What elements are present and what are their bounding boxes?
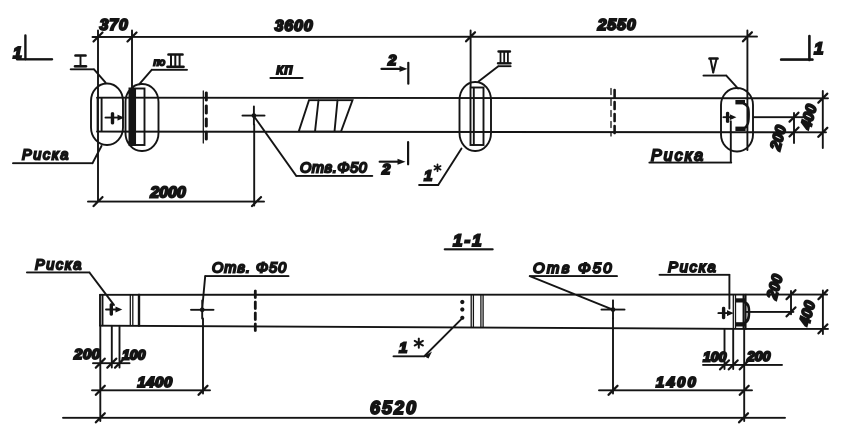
console stadium left 2 [126, 84, 159, 151]
200 dim mid line [747, 311, 794, 313]
beam bottom edge [97, 131, 826, 134]
svg-text:200: 200 [763, 272, 786, 302]
hole cross bottom-right [602, 309, 625, 311]
svg-text:2550: 2550 [597, 17, 637, 34]
extension x=470.5 [470, 31, 472, 88]
svg-text:Риска: Риска [22, 148, 70, 164]
svg-text:200: 200 [746, 348, 771, 364]
small dim line right [703, 364, 782, 366]
mark I [75, 56, 86, 67]
dashed joint bottom view [254, 291, 257, 333]
bottom edge extension [746, 328, 828, 330]
1400 dim right [599, 389, 752, 391]
joint dashed lines at x~204 [202, 91, 204, 143]
section mark 1 top-right [808, 36, 811, 60]
svg-text:400: 400 [797, 102, 820, 132]
right side: 200 dim line mid [754, 116, 804, 118]
joint lines at 370 [129, 295, 131, 326]
trapezoid mark (kp) [299, 100, 353, 131]
console stadium middle [460, 82, 492, 151]
6520 dim [63, 417, 785, 419]
svg-text:1400: 1400 [137, 374, 173, 391]
three dots [460, 300, 464, 304]
svg-text:1: 1 [814, 39, 823, 58]
400 vertical [822, 291, 824, 335]
svg-text:Риска: Риска [668, 259, 717, 276]
riska mark left (tick) [111, 114, 114, 123]
lifting loop bottom view: arc [745, 302, 749, 322]
ext lines left small dims [99, 326, 101, 421]
svg-text:1-1: 1-1 [453, 231, 484, 250]
tick 98 [94, 33, 103, 42]
tick 470 [466, 32, 475, 41]
svg-text:по: по [154, 57, 166, 69]
svg-text:100: 100 [703, 349, 727, 365]
riska mark bottom-left [110, 305, 113, 314]
joint double lines bottom view [470, 295, 472, 328]
svg-text:6520: 6520 [370, 398, 418, 418]
console stadium right [721, 88, 753, 152]
lifting loop bottom bar [735, 127, 745, 131]
mark III middle [498, 52, 511, 64]
tick 132 [128, 33, 137, 42]
tick 747 [743, 32, 752, 41]
svg-text:370: 370 [99, 17, 128, 34]
2000 dim line [88, 201, 264, 203]
plate in stadium 2 [130, 89, 145, 146]
extension x=132 [131, 31, 133, 91]
svg-text:2: 2 [381, 161, 391, 178]
svg-text:3600: 3600 [275, 18, 314, 35]
plate middle [471, 88, 484, 146]
beam left end face [97, 98, 99, 132]
bar left end face [99, 295, 101, 326]
bar right end face [743, 295, 745, 329]
lifting loop top bar [735, 100, 745, 104]
200 vertical [790, 291, 792, 314]
riska mark bottom-right [722, 309, 725, 318]
svg-text:Отв Φ50: Отв Φ50 [533, 260, 614, 277]
svg-text:кп: кп [276, 61, 293, 78]
svg-text:1: 1 [13, 45, 22, 62]
lifting loop arc [744, 104, 749, 128]
hole cross top view [243, 115, 265, 117]
top dim line [93, 36, 758, 38]
svg-text:1: 1 [424, 168, 432, 185]
riska arrow left [106, 117, 120, 119]
svg-text:2000: 2000 [149, 185, 186, 202]
hole extension down to 2000 dim [253, 125, 255, 206]
200 vertical [793, 113, 795, 143]
console stadium left 1 [91, 84, 123, 146]
small dim line left [93, 362, 130, 364]
svg-text:Риска: Риска [35, 258, 83, 274]
svg-text:200: 200 [73, 346, 101, 363]
joint dashed lines at x~612 [610, 89, 612, 137]
hole cross bottom-left [191, 309, 214, 311]
svg-text:2: 2 [387, 52, 397, 69]
svg-text:1: 1 [399, 340, 407, 357]
extension hole to 1400 dim right [612, 318, 614, 393]
leader riska bottom-right vertical [728, 275, 730, 309]
extension x=98 [97, 31, 99, 202]
1400 dim left [92, 389, 210, 391]
400 vertical [822, 91, 824, 148]
beam top edge [97, 97, 828, 100]
extension hole to 1400 dim [202, 319, 204, 394]
svg-text:Отв. Φ50: Отв. Φ50 [212, 261, 287, 277]
section mark 1 top-left [24, 36, 26, 60]
top edge extension [746, 294, 827, 296]
leader riska right down [730, 121, 732, 162]
extension x=747.5 [746, 31, 748, 151]
lifting loop bottom view: bottom bar [736, 322, 746, 326]
svg-text:200: 200 [767, 123, 790, 153]
bar bottom edge [100, 326, 746, 329]
bar top edge [100, 294, 746, 296]
svg-text:100: 100 [122, 347, 146, 363]
lifting loop bottom view: top bar [736, 298, 746, 302]
joint double line right [732, 295, 734, 329]
riska mark right top view [726, 113, 729, 121]
svg-text:400: 400 [796, 298, 819, 328]
svg-text:Отв.Φ50: Отв.Φ50 [300, 161, 367, 177]
ext lines right small dims [724, 329, 726, 369]
svg-text:1400: 1400 [656, 374, 698, 391]
mark V [710, 59, 718, 73]
